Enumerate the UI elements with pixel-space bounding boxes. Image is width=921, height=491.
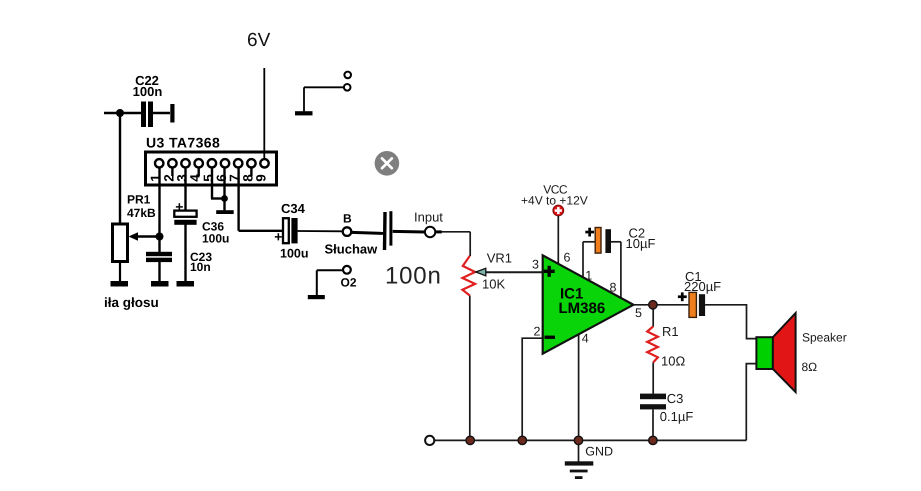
svg-text:100u: 100u xyxy=(202,232,229,246)
svg-text:6V: 6V xyxy=(247,30,271,51)
svg-text:PR1: PR1 xyxy=(127,193,151,207)
svg-text:3: 3 xyxy=(532,258,539,272)
svg-text:10n: 10n xyxy=(190,260,211,274)
svg-text:10µF: 10µF xyxy=(626,236,656,251)
svg-text:B: B xyxy=(343,212,352,226)
svg-text:Speaker: Speaker xyxy=(802,330,847,344)
svg-text:1: 1 xyxy=(585,269,592,283)
svg-text:C34: C34 xyxy=(281,201,306,216)
svg-text:+4V to +12V: +4V to +12V xyxy=(521,193,588,207)
svg-text:47kB: 47kB xyxy=(127,206,156,220)
svg-text:100n: 100n xyxy=(133,84,163,99)
svg-text:10Ω: 10Ω xyxy=(661,353,685,368)
svg-text:5: 5 xyxy=(635,306,642,320)
svg-text:4: 4 xyxy=(582,332,589,346)
svg-text:100u: 100u xyxy=(280,247,309,261)
svg-text:Słuchaw: Słuchaw xyxy=(325,241,379,256)
svg-text:6: 6 xyxy=(564,251,571,265)
svg-text:8Ω: 8Ω xyxy=(802,360,818,374)
svg-text:VR1: VR1 xyxy=(487,251,512,266)
svg-text:9: 9 xyxy=(254,174,269,182)
svg-text:10K: 10K xyxy=(482,276,505,291)
svg-text:8: 8 xyxy=(610,280,617,294)
svg-text:C3: C3 xyxy=(667,391,684,406)
svg-text:+: + xyxy=(175,199,183,215)
svg-text:220µF: 220µF xyxy=(684,279,721,294)
svg-text:0.1µF: 0.1µF xyxy=(660,409,694,424)
svg-text:+: + xyxy=(274,229,282,245)
svg-text:iła głosu: iła głosu xyxy=(104,295,159,310)
svg-text:GND: GND xyxy=(585,445,613,459)
svg-text:U3 TA7368: U3 TA7368 xyxy=(146,135,220,151)
svg-text:Input: Input xyxy=(414,210,443,225)
svg-text:2: 2 xyxy=(534,324,541,338)
svg-text:100n: 100n xyxy=(385,263,442,290)
svg-text:R1: R1 xyxy=(662,324,679,339)
svg-text:LM386: LM386 xyxy=(559,300,606,317)
svg-text:O2: O2 xyxy=(341,276,357,290)
